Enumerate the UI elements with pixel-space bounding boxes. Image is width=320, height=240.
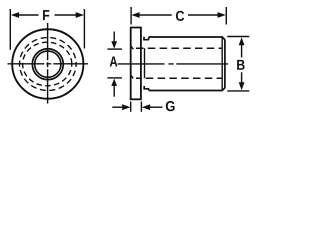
front view hidden circle (counterbore projection), dashed — [23, 42, 72, 86]
dim F extension line left — [9, 9, 11, 50]
dim C extension line right — [225, 7, 227, 25]
dim B arrow down — [239, 82, 245, 90]
dim B arrow up — [239, 37, 245, 45]
label F — [43, 10, 49, 20]
side view body bottom outline with chamfer and junction notch — [144, 86, 225, 91]
dim C arrow left — [131, 12, 139, 18]
dim G left tail — [112, 106, 122, 108]
front view outer circle (flange OD) — [12, 29, 83, 99]
front view horizontal centerline — [8, 63, 89, 65]
front view hidden circle (body OD projection), dashed — [20, 38, 77, 91]
dim G arrow right-pointing — [122, 104, 130, 110]
dim F arrow right — [76, 12, 84, 18]
dim A bottom stem — [113, 85, 115, 97]
dim F arrow left — [11, 12, 19, 18]
side view counterbore step line — [144, 48, 146, 78]
dim G arrow left-pointing — [142, 104, 150, 110]
dim B dimension line — [241, 45, 243, 84]
dim C extension line left — [130, 7, 132, 25]
side view body top outline with junction notch and chamfered corner — [144, 37, 225, 40]
dim G extension right — [140, 102, 142, 112]
side view body right edge — [224, 40, 226, 89]
front view vertical centerline — [47, 23, 49, 104]
side view horizontal centerline — [118, 63, 229, 65]
label A — [110, 57, 118, 67]
dim A top stem — [113, 32, 115, 43]
dim B extension bottom — [227, 90, 249, 92]
dim A bottom tick — [107, 77, 122, 79]
label G — [166, 101, 175, 111]
dim A arrow up — [111, 79, 117, 86]
side view bore hidden line top — [136, 47, 222, 49]
label B — [237, 60, 245, 70]
side view bore hidden line bottom — [136, 77, 222, 79]
dim F dimension line — [17, 14, 77, 16]
side view bore chamfer tick bottom — [131, 75, 134, 79]
dim G extension left — [130, 102, 132, 112]
front view counterbore circle — [32, 49, 63, 80]
front view bore circle — [35, 51, 61, 77]
dim B extension top — [227, 36, 249, 38]
dim C dimension line — [138, 14, 219, 16]
dim A arrow down — [111, 41, 117, 48]
side view chamfer line at right end — [221, 37, 223, 90]
dim G right tail — [150, 106, 163, 108]
side view flange rectangle — [131, 28, 141, 100]
label C — [176, 11, 184, 21]
dim A top tick — [107, 48, 122, 50]
dim F extension line right — [83, 9, 85, 49]
dim C arrow right — [218, 12, 226, 18]
side view bore chamfer tick top — [131, 46, 134, 49]
